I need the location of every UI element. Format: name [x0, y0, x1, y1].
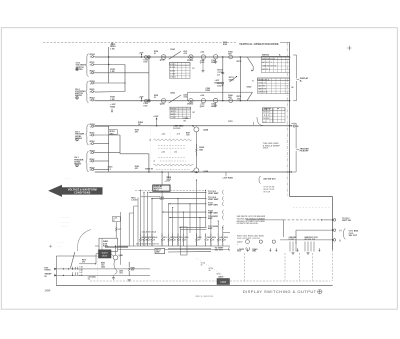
truth table small (gain) [170, 107, 191, 118]
arc table3 drop [257, 117, 264, 126]
switch S401 display switch box [153, 185, 170, 191]
wire drop 8 [177, 199, 179, 246]
svg-text:CH 1 1 2 3: CH 1 1 2 3 [258, 82, 266, 84]
svg-text:1OO: 1OO [143, 62, 148, 64]
relay K470 box [99, 238, 118, 251]
svg-text:-O.3: -O.3 [177, 134, 180, 136]
resistor R4O4 [143, 234, 145, 238]
svg-text:-O.1: -O.1 [174, 152, 177, 154]
wire G4-2 stub [95, 160, 109, 162]
wire G3-2 stub [95, 134, 120, 136]
svg-text:S26O: S26O [247, 87, 252, 89]
svg-text:1.5K: 1.5K [110, 49, 115, 51]
wire rail A (CH1 signal) [95, 56, 290, 58]
test point arrow [319, 248, 321, 251]
svg-text:.OO1: .OO1 [160, 199, 164, 201]
truth table gain A [170, 63, 191, 79]
wire drop c [137, 197, 139, 246]
resistor R414 [172, 234, 174, 238]
svg-text:SWP GEN: SWP GEN [208, 204, 218, 206]
interstage vertical 2 [239, 57, 241, 101]
svg-text:91: 91 [154, 97, 156, 99]
ground g3 [128, 279, 131, 281]
svg-text:2ND: 2ND [156, 252, 160, 254]
dashed vertical shield [97, 250, 99, 281]
waveform trace 1 [154, 139, 192, 141]
svg-text:V G 1 2: V G 1 2 [171, 108, 176, 110]
wire out 3 [280, 239, 333, 241]
terminal 36 flag [293, 125, 295, 127]
resistor R495 [128, 262, 130, 267]
resistor R418 [182, 234, 184, 238]
wire +12 drop [115, 222, 117, 238]
transistor Q263 [201, 99, 205, 103]
wire G3-3 stub [95, 143, 109, 145]
svg-text:DL47O: DL47O [102, 252, 108, 255]
wire under box [141, 196, 160, 198]
svg-text:68O: 68O [110, 133, 114, 135]
enclosure box bottom left [55, 256, 57, 286]
wire G4-1 stub [95, 152, 120, 154]
dashed wire S401 right [170, 189, 206, 191]
waveform dash row e [156, 169, 190, 171]
svg-text:CR16O: CR16O [187, 60, 194, 62]
dashed partition 3 [298, 253, 300, 281]
svg-text:1.5K: 1.5K [110, 99, 115, 101]
resistor strokes group 2 [305, 242, 314, 252]
svg-text:-5: -5 [153, 161, 155, 163]
wire drop 7 [172, 208, 174, 247]
svg-text:R364 1K: R364 1K [145, 168, 153, 171]
resistor R353 box [109, 130, 117, 135]
svg-text:DC 2 1 5: DC 2 1 5 [262, 69, 271, 71]
wire drop 1 [139, 190, 141, 246]
wire drop 2 [143, 192, 145, 246]
svg-text:CONDITIONS: CONDITIONS [74, 193, 91, 195]
svg-text:.. ... .: .. ... . [58, 245, 63, 247]
svg-text:+12.4: +12.4 [200, 94, 204, 97]
resistor R428 [222, 234, 224, 238]
resistor R365 [195, 132, 197, 168]
svg-text:+O.1: +O.1 [162, 152, 166, 154]
dashed partition 2 [284, 253, 286, 281]
wire q485 up [115, 246, 117, 255]
svg-text:C372: C372 [228, 121, 233, 123]
test point arrow [276, 248, 278, 251]
-10V feed D [167, 172, 169, 178]
svg-text:... .. ....: ... .. .... [58, 242, 65, 244]
bracket: trigger pickoff [291, 123, 296, 172]
wire drop 3 [147, 192, 149, 246]
transistor Q358 [194, 127, 199, 132]
registration mark [347, 46, 351, 50]
svg-text:18 1OO: 18 1OO [173, 128, 180, 130]
svg-text:2O 5 2: 2O 5 2 [263, 112, 270, 114]
dash-dot boundary vertical [286, 42, 288, 196]
wire G3-1 riser [95, 125, 109, 127]
wire ext horiz [57, 268, 150, 270]
svg-text:Q263: Q263 [200, 106, 204, 108]
svg-text:CH 1 2O 5 2 1: CH 1 2O 5 2 1 [262, 58, 276, 60]
dashed partition 4 [311, 253, 313, 281]
svg-text:Q163: Q163 [200, 62, 204, 64]
test point arrow [297, 248, 299, 251]
svg-text:+12.4: +12.4 [200, 50, 204, 53]
schematic bottom border [56, 285, 332, 287]
resistor R426 [217, 234, 219, 238]
svg-text:DISPLAY SWITCHING & OUTPUT: DISPLAY SWITCHING & OUTPUT [243, 289, 317, 294]
bracket group 4 [86, 151, 89, 172]
svg-text:SIG OUT: SIG OUT [349, 235, 358, 237]
resistor R42O [195, 234, 197, 238]
svg-text:OR DEPICTED IN BLUE.: OR DEPICTED IN BLUE. [237, 223, 259, 225]
wire drop 16 [222, 227, 224, 246]
svg-text:HORIZ: HORIZ [45, 270, 52, 272]
svg-text:D 1O 11: D 1O 11 [170, 77, 176, 79]
resistor R477 [115, 226, 117, 227]
svg-text:1-4 15O: 1-4 15O [131, 199, 138, 202]
delay line box DL470 [99, 250, 112, 258]
svg-text:. .. ... .. .: . .. ... .. . [63, 178, 71, 180]
svg-text:C 7 8 9: C 7 8 9 [171, 117, 176, 119]
resistor R4O6 [147, 234, 149, 238]
svg-text:. .... .. ..: . .... .. .. [61, 226, 68, 228]
svg-text:Q259: Q259 [160, 103, 165, 105]
wire drop 13 [205, 190, 207, 227]
ground g2 [113, 275, 115, 278]
svg-text:R168: R168 [223, 44, 227, 46]
ground out 1 [291, 253, 294, 255]
wire bottom bus 1 [95, 245, 230, 247]
wire S401 riser [161, 172, 163, 185]
terminal out 1 [333, 219, 335, 221]
diode CR16O [189, 55, 193, 59]
bracket CH1 input group [86, 54, 89, 77]
svg-text:VOLTAGE & WAVEFORM: VOLTAGE & WAVEFORM [68, 189, 97, 192]
svg-text:.. ... . .... ..: .. ... . .... .. [61, 217, 70, 219]
svg-text:S4O1: S4O1 [154, 189, 160, 192]
wire drop 6 [168, 204, 170, 246]
svg-text:S16O: S16O [170, 49, 175, 51]
wire out 2 [296, 229, 333, 231]
svg-text:GND 5O 2O 1O: GND 5O 2O 1O [262, 66, 277, 68]
title circled plus [318, 290, 322, 294]
svg-text:A4O SW 4O1: A4O SW 4O1 [263, 177, 276, 180]
wire fan 3 [170, 203, 207, 205]
banner: voltage and waveform conditions arrow [48, 185, 102, 197]
wire rail B (CH2 signal) [95, 100, 290, 102]
resistor R416 [177, 234, 179, 238]
wire fan pair lower [181, 229, 207, 231]
terminal out 2 [333, 229, 335, 231]
bracket: to display board [293, 55, 296, 101]
arc cable sweep [77, 230, 91, 252]
fan test points diagonal [196, 258, 226, 277]
svg-text:SWP GEN: SWP GEN [208, 213, 218, 215]
svg-text:13O: 13O [237, 98, 241, 100]
svg-text:AMP: AMP [208, 227, 213, 230]
svg-text:+O.3: +O.3 [162, 134, 166, 136]
wire rail C [95, 125, 290, 127]
ladder vertical mid-1 [108, 126, 110, 169]
wire sweep in [57, 274, 150, 276]
svg-text:VERTICAL OPERATION MODE: VERTICAL OPERATION MODE [239, 42, 279, 46]
wire fan 5 [170, 217, 207, 219]
svg-text:REV. D, JUN 1974: REV. D, JUN 1974 [196, 295, 214, 298]
transistor Q163 [201, 55, 205, 59]
svg-text:5O 2O: 5O 2O [263, 118, 269, 120]
wire to mode tables [247, 57, 253, 66]
wire G4-3 stub [95, 169, 109, 171]
resistor R4O8 [151, 234, 153, 238]
wire drop 12 [199, 218, 201, 240]
svg-text:VERT AMP: VERT AMP [208, 198, 219, 201]
emitter follower Q167 [229, 55, 233, 59]
wire output vertical 1 [282, 220, 284, 237]
wire rail D [95, 171, 290, 173]
resistor R422 [205, 234, 207, 238]
wire bottom bus 2 [108, 249, 230, 251]
switch wafer S402 box [155, 248, 165, 253]
svg-text:C 7 8 9: C 7 8 9 [170, 73, 175, 75]
svg-text:AMP: AMP [208, 217, 213, 220]
waveform center tie [170, 133, 172, 170]
svg-text:.5 .2 .1: .5 .2 .1 [263, 115, 270, 117]
svg-text:O.1: O.1 [88, 279, 91, 281]
svg-text:R262: R262 [206, 90, 211, 92]
svg-text:.OO1: .OO1 [119, 272, 123, 274]
svg-text:VERT SIG: VERT SIG [342, 220, 351, 222]
wire into delay line [95, 254, 97, 264]
brace signal out [344, 228, 346, 239]
wire drop 10 [189, 204, 191, 233]
svg-text:VERT AMP: VERT AMP [208, 192, 219, 195]
wire diag Q368 [190, 171, 194, 172]
svg-text:S26O: S26O [170, 93, 175, 95]
svg-text:(+): (+) [339, 230, 342, 232]
switch lever S475 [71, 252, 75, 268]
wire output vertical 2 [295, 230, 297, 244]
ladder vertical mid-2 + jog [119, 135, 121, 154]
transistor Q368 [194, 168, 199, 173]
wire dl to q485 [111, 254, 114, 256]
wire drop 5 [161, 191, 163, 246]
terminal out 3 [333, 239, 335, 241]
wire drop 9 [182, 212, 184, 246]
resistor R412 [168, 234, 170, 238]
svg-text:... .. ... ...: ... .. ... ... [61, 222, 69, 224]
switch S26O [169, 95, 181, 103]
bracket CH2 input group [86, 81, 89, 103]
capacitor C152 [145, 56, 148, 59]
svg-text:PICKOFF: PICKOFF [300, 151, 310, 153]
diode CR26O [189, 99, 193, 103]
strong mesh tail wire [105, 246, 128, 248]
wire drop b [133, 206, 135, 246]
svg-text:68O: 68O [252, 251, 256, 253]
wire fan 2 [152, 198, 207, 200]
wire CH2-1 stub [95, 82, 125, 84]
+10V feed C [156, 118, 158, 126]
svg-text:CHOP 1O 11: CHOP 1O 11 [258, 91, 267, 93]
wire drop 14 [210, 212, 212, 246]
waveform left tick column [150, 128, 152, 172]
wire fan out lower 2 [168, 251, 211, 253]
svg-text:Q485: Q485 [119, 254, 123, 257]
transistor Q164 [213, 55, 217, 59]
svg-text:AC .5 .2 .1: AC .5 .2 .1 [262, 61, 272, 64]
resistor R41O [161, 234, 163, 238]
wire drop 15 [217, 221, 219, 246]
svg-text:9F 1OR: 9F 1OR [263, 191, 270, 193]
wire: display bus [289, 42, 291, 196]
resistor strokes group 1 [290, 242, 296, 252]
svg-text:R264 R265: R264 R265 [215, 81, 225, 84]
ladder vertical 1 [108, 47, 110, 83]
transistor Q259 [161, 98, 166, 103]
resistor R474 wire [79, 263, 96, 265]
test point arrow [270, 248, 272, 251]
plus tick [49, 245, 52, 248]
waveform trace 2 [154, 164, 194, 166]
resistor R4O2 [139, 234, 141, 238]
transistor Q485 [113, 255, 118, 260]
switch contact column [73, 267, 78, 275]
svg-text:1OO: 1OO [143, 105, 148, 107]
wire fan out lower 1 [168, 248, 211, 250]
svg-text:+1OF R369: +1OF R369 [222, 177, 233, 179]
wire fan 4 [163, 211, 207, 213]
svg-text:1434: 1434 [45, 288, 51, 292]
svg-text:1OO .OO1 47O .OO1 1K: 1OO .OO1 47O .OO1 1K [237, 237, 260, 240]
bracket group 3 [86, 124, 89, 145]
resistor R424 [210, 234, 212, 238]
svg-text:R252: R252 [110, 107, 116, 109]
svg-text:91: 91 [154, 53, 156, 55]
wire diag to rail B [247, 92, 253, 101]
ground [215, 103, 217, 105]
svg-text:Q159: Q159 [160, 60, 165, 62]
svg-text:S4O5: S4O5 [218, 276, 224, 279]
wire drop a [128, 213, 130, 246]
svg-text:.OO1: .OO1 [183, 53, 187, 55]
wire drop 4 [151, 199, 153, 246]
network above rail B [187, 92, 189, 101]
wire out 1 [246, 219, 283, 221]
waveform dash row a [158, 145, 186, 147]
svg-text:.OO1: .OO1 [183, 97, 187, 99]
ground out 2 [306, 253, 309, 255]
resistor R252 -10V feed [111, 109, 113, 113]
transistor Q159 [161, 55, 166, 60]
curve q485 emitter [114, 260, 117, 274]
waveform dash row b [158, 147, 186, 149]
-10V feed D2 [225, 172, 227, 176]
svg-text:1OO: 1OO [217, 85, 222, 87]
wire CH1-2 stub [95, 64, 125, 66]
resistor R150 +10V feed [111, 42, 113, 47]
svg-text:56K: 56K [199, 150, 203, 152]
svg-text:1-4 2-4 OO 3-4 4-4: 1-4 2-4 OO 3-4 4-4 [142, 230, 156, 233]
emitter follower Q267 [229, 99, 233, 103]
dashed partition 1 [244, 253, 246, 281]
interstage vertical 1 [222, 57, 224, 101]
switch S16O [169, 51, 181, 59]
dashed wire S401 left [135, 189, 153, 191]
dashed boundary: vertical operation mode [43, 41, 237, 43]
capacitor C252 [145, 99, 148, 102]
wire fan 1 [150, 191, 207, 193]
stamp box [217, 279, 230, 285]
svg-text:CR26O: CR26O [187, 104, 194, 106]
wire left drop [120, 212, 122, 265]
svg-text:+1OF: +1OF [153, 116, 159, 118]
svg-text:36: 36 [291, 87, 293, 89]
wire fan stub 232 [223, 231, 230, 233]
waveform dash row d [160, 160, 186, 162]
ladder vertical 3 [148, 57, 150, 101]
svg-text:V G 1 2: V G 1 2 [170, 64, 175, 66]
svg-text:1.5K: 1.5K [110, 71, 115, 73]
dashed stub right [293, 207, 330, 209]
ladder vertical 2 [124, 65, 126, 92]
ground [215, 59, 217, 61]
wire fan 6 [180, 226, 207, 228]
waveform dash row c [158, 156, 186, 158]
dashed bottom boundary [90, 280, 217, 282]
svg-text:ONLY: ONLY [263, 147, 269, 149]
wire CH2-2 stub [95, 91, 125, 94]
dashed right boundary [332, 250, 334, 281]
wire drop 11 [195, 180, 197, 246]
ground Q163 [202, 59, 204, 70]
shield box mesh [181, 227, 188, 255]
brace: switch detail [259, 176, 261, 183]
transistor Q264 [213, 98, 217, 102]
wire CH1-3 stub [95, 72, 149, 74]
svg-text:14O5: 14O5 [220, 281, 227, 284]
flag +12V [112, 217, 120, 222]
